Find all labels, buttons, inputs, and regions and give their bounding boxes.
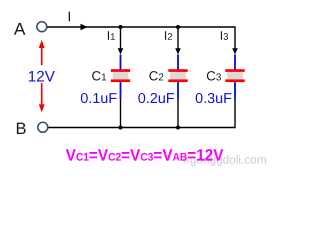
label B xyxy=(17,123,26,134)
watermark gonggdoli.com xyxy=(183,155,265,166)
label A xyxy=(14,23,25,35)
wire bottom horizontal xyxy=(48,127,235,129)
branch 2 wire upper xyxy=(177,27,179,49)
capacitor C2 xyxy=(168,55,187,100)
branch 3 wire upper xyxy=(234,26,236,49)
label I2 xyxy=(165,31,172,40)
capacitor C1 xyxy=(111,55,130,100)
label I3 xyxy=(221,31,228,40)
node dot bottom branch 1 xyxy=(119,126,123,130)
label 12V source xyxy=(29,71,55,82)
voltage arrow up toward A xyxy=(39,40,45,65)
branch 3 current arrowhead I3 xyxy=(232,48,238,54)
current I arrowhead xyxy=(81,24,88,30)
branch 2 wire lower xyxy=(177,99,179,128)
label I xyxy=(69,12,70,22)
branch 2 current arrowhead I2 xyxy=(175,48,181,54)
terminal A xyxy=(37,22,47,32)
node dot bottom branch 2 xyxy=(176,126,180,130)
label 0.2uF xyxy=(138,93,174,103)
node dot top branch 2 xyxy=(176,25,180,29)
label I1 xyxy=(108,31,115,40)
label C3 xyxy=(207,71,221,80)
wire top horizontal xyxy=(47,26,235,28)
terminal B xyxy=(38,122,48,132)
voltage arrow down toward B xyxy=(39,83,45,112)
label C1 xyxy=(92,71,106,80)
branch 1 wire lower xyxy=(120,99,122,128)
branch 3 wire lower xyxy=(234,99,236,128)
branch 1 wire upper xyxy=(120,27,122,49)
label 0.1uF xyxy=(81,93,117,103)
capacitor C3 xyxy=(225,55,244,100)
node dot top branch 1 xyxy=(119,25,123,29)
label C2 xyxy=(149,71,163,80)
formula Vc1=Vc2=Vc3=Vab=12V xyxy=(66,149,224,161)
label 0.3uF xyxy=(196,93,232,103)
branch 1 current arrowhead I1 xyxy=(118,48,124,54)
